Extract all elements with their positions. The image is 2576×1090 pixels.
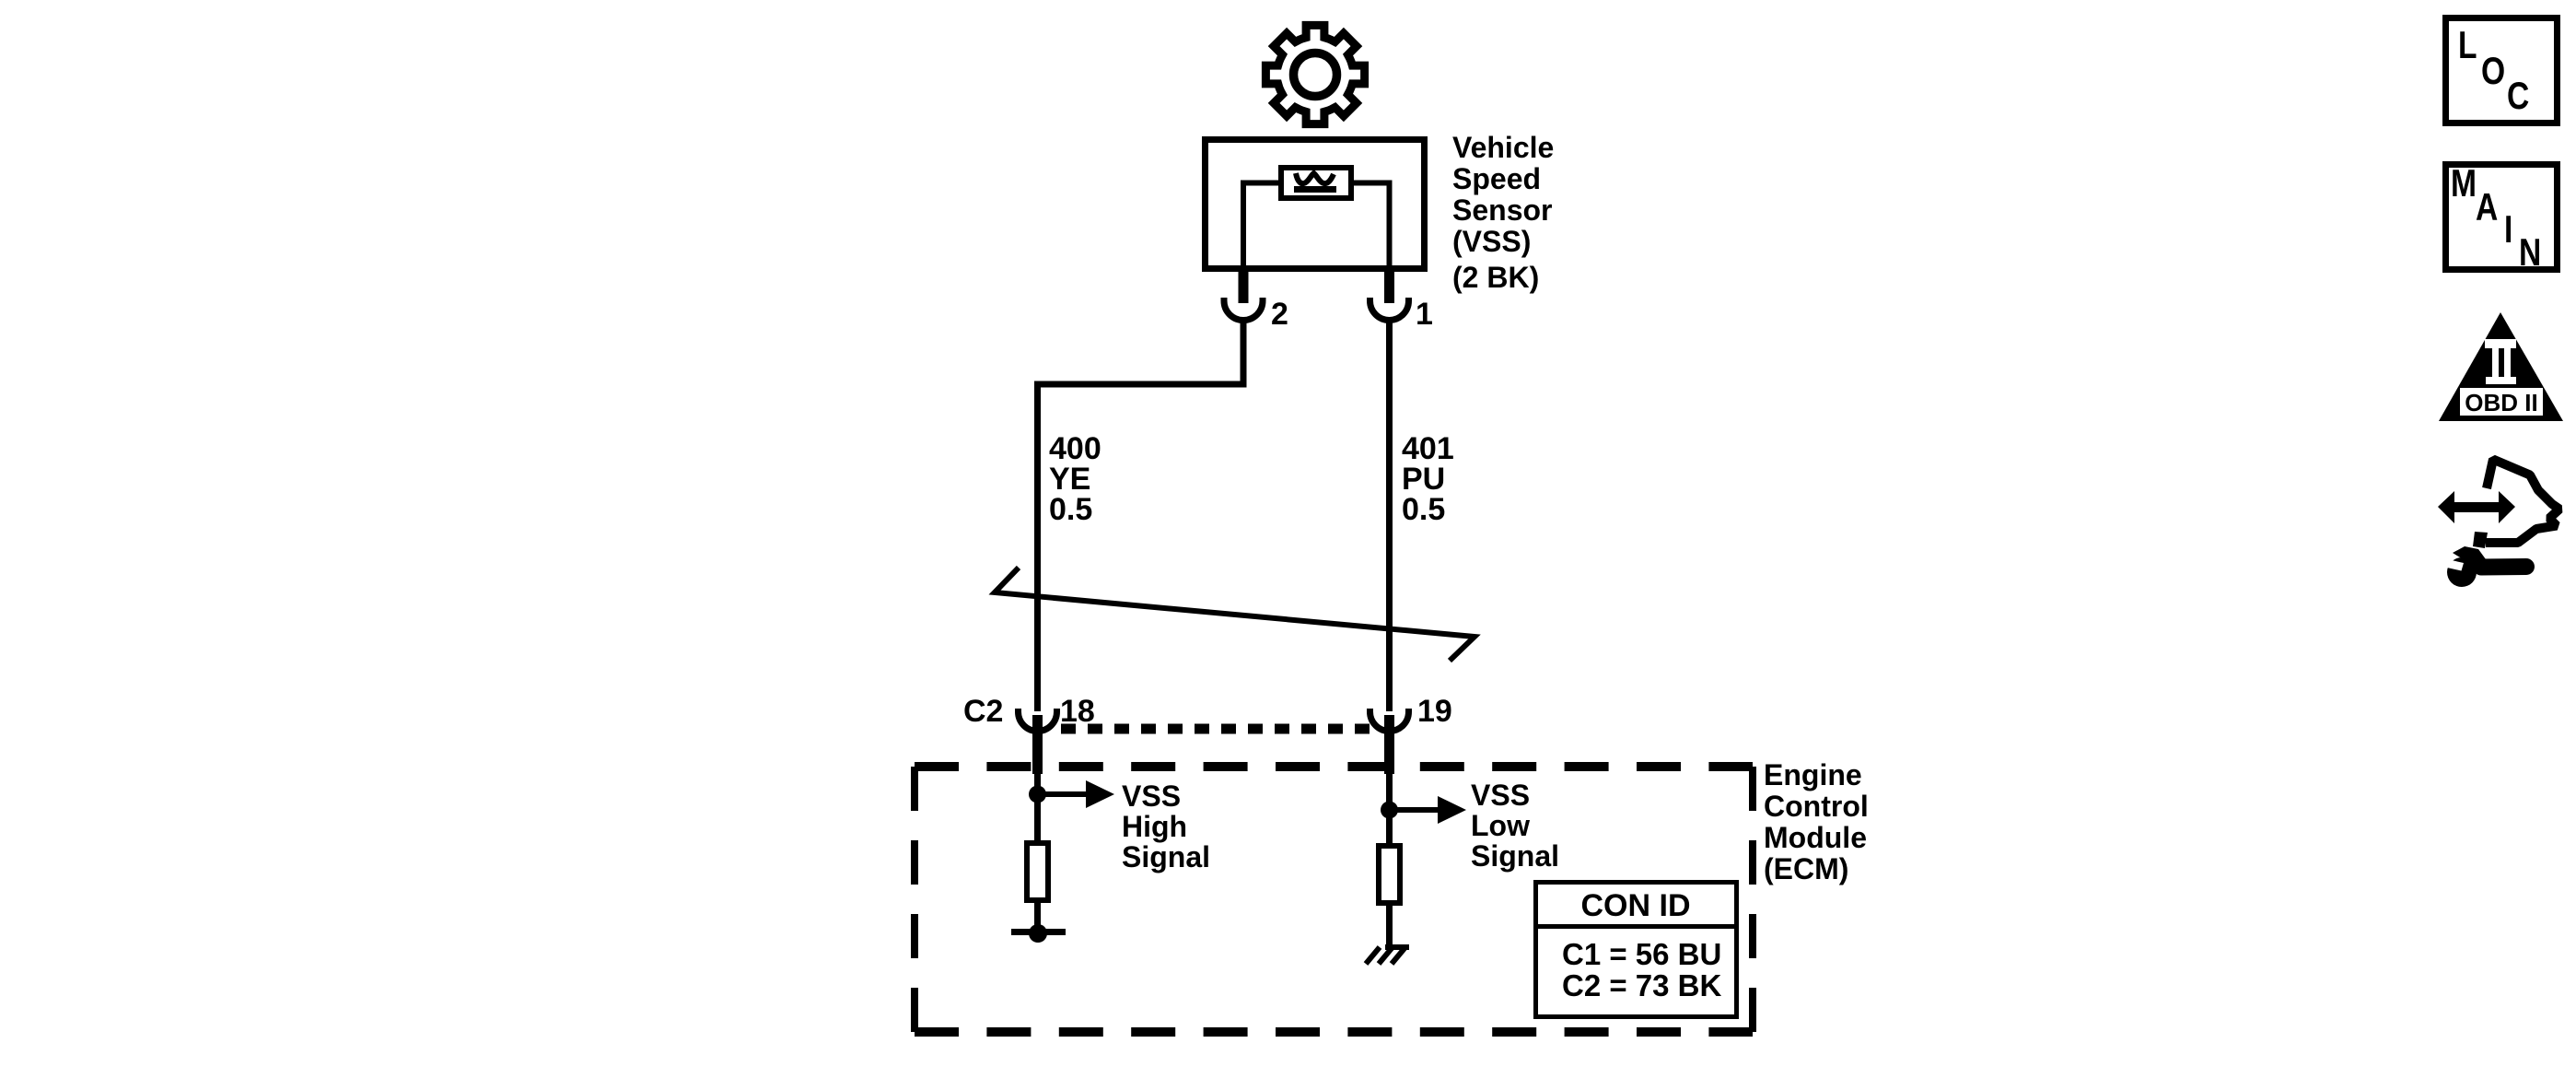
wire: sensor element to pin 2 (internal left) — [1243, 183, 1281, 273]
dotted line joining connector C2 terminals — [1061, 724, 1376, 734]
resistor (VSS high pull) — [1027, 843, 1048, 900]
label: VSS Low Signal — [1471, 779, 1559, 873]
svg-text:(ECM): (ECM) — [1764, 852, 1848, 885]
arrow: VSS High Signal — [1038, 780, 1115, 808]
svg-text:High: High — [1122, 810, 1187, 843]
svg-text:Speed: Speed — [1452, 162, 1541, 195]
svg-text:OBD II: OBD II — [2465, 389, 2537, 416]
svg-text:A: A — [2476, 187, 2498, 229]
label: Vehicle Speed Sensor — [1452, 131, 1554, 294]
wire: circuit 401 PU (pin 1 to ECM pin 19) — [1386, 322, 1393, 711]
MAIN reference box — [2446, 163, 2558, 275]
sensor element symbol inside VSS — [1281, 168, 1351, 198]
wire label 401 PU 0.5 — [1402, 431, 1454, 527]
chassis ground — [1366, 947, 1409, 964]
ECM dashed box — [915, 767, 1753, 1032]
svg-text:VSS: VSS — [1471, 779, 1530, 812]
svg-text:I: I — [2504, 209, 2512, 252]
wire below left resistor — [1034, 903, 1041, 932]
svg-text:0.5: 0.5 — [1402, 492, 1445, 527]
service icon: wrench — [2443, 546, 2527, 587]
service icon: double arrow — [2438, 491, 2515, 523]
resistor (VSS low pull) — [1379, 846, 1400, 903]
twisted-pair marker across both wires — [995, 568, 1474, 661]
svg-text:M: M — [2451, 163, 2477, 205]
pin stub 18 — [1032, 715, 1043, 774]
svg-text:0.5: 0.5 — [1049, 492, 1092, 527]
service icon: connector outline — [2486, 460, 2559, 544]
svg-text:C2 = 73 BK: C2 = 73 BK — [1562, 968, 1721, 1002]
svg-text:Vehicle: Vehicle — [1452, 131, 1554, 164]
svg-text:Sensor: Sensor — [1452, 193, 1552, 227]
svg-text:CON ID: CON ID — [1581, 888, 1691, 923]
svg-text:C: C — [2507, 76, 2529, 118]
junction node on VSS low line — [1381, 802, 1398, 819]
wire below right resistor — [1386, 904, 1393, 947]
svg-text:(2 BK): (2 BK) — [1452, 261, 1539, 294]
label: Engine Control Module (ECM) — [1764, 758, 1869, 885]
pin stub 2 — [1239, 270, 1249, 303]
label: VSS High Signal — [1122, 779, 1210, 873]
svg-text:VSS: VSS — [1122, 779, 1181, 813]
svg-text:Control: Control — [1764, 790, 1869, 823]
svg-text:2: 2 — [1271, 297, 1288, 332]
component box: Vehicle Speed Sensor — [1206, 140, 1425, 269]
connector terminal 18 (arc) — [1019, 709, 1057, 732]
svg-text:Low: Low — [1471, 809, 1530, 842]
junction node on VSS high line — [1029, 786, 1046, 803]
svg-text:Module: Module — [1764, 821, 1867, 854]
connector terminal 2 (arc) — [1224, 298, 1263, 321]
svg-text:19: 19 — [1417, 694, 1452, 729]
pin stub 19 — [1384, 715, 1394, 774]
LOC reference box — [2446, 18, 2558, 123]
svg-text:C1 = 56 BU: C1 = 56 BU — [1562, 937, 1721, 971]
wire: pin 18 into ECM — [1034, 774, 1041, 840]
connector terminal 1 (arc) — [1370, 298, 1409, 321]
svg-text:C2: C2 — [963, 694, 1003, 729]
svg-text:L: L — [2458, 25, 2477, 67]
svg-text:1: 1 — [1416, 297, 1433, 332]
wire: pin 19 into ECM — [1386, 774, 1393, 843]
svg-text:(VSS): (VSS) — [1452, 225, 1531, 258]
svg-text:O: O — [2481, 51, 2505, 93]
arrow: VSS Low Signal — [1390, 796, 1467, 824]
wire: sensor element to pin 1 (internal right) — [1351, 183, 1390, 273]
connector terminal 19 (arc) — [1370, 709, 1409, 732]
internal splice node (bar + dot) — [1011, 924, 1066, 943]
svg-text:18: 18 — [1060, 694, 1095, 729]
svg-text:N: N — [2519, 232, 2541, 275]
wire: circuit 400 YE (pin 2 to ECM pin 18) — [1038, 322, 1244, 711]
svg-text:Signal: Signal — [1471, 839, 1559, 873]
wire label 400 YE 0.5 — [1049, 431, 1102, 527]
gear icon (speed sensor rotor) — [1265, 25, 1364, 123]
pin stub 1 — [1384, 270, 1394, 303]
svg-text:Signal: Signal — [1122, 840, 1210, 873]
CON ID table — [1533, 883, 1739, 1017]
svg-text:Engine: Engine — [1764, 758, 1862, 791]
OBD II triangle icon — [2439, 312, 2563, 421]
